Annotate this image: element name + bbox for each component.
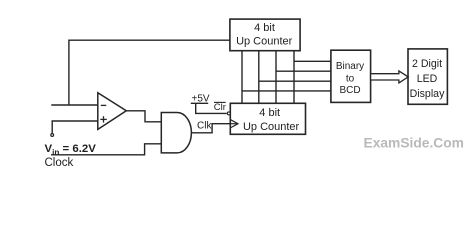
svg-text:BCD: BCD (339, 85, 360, 96)
svg-text:Up Counter: Up Counter (236, 36, 293, 48)
svg-text:ExamSide.Com: ExamSide.Com (364, 136, 464, 151)
svg-text:to: to (346, 73, 355, 84)
svg-text:Clock: Clock (45, 157, 74, 169)
svg-text:Display: Display (410, 88, 445, 100)
svg-text:LED: LED (417, 73, 438, 85)
svg-text:Clk: Clk (197, 121, 212, 132)
svg-text:Clr: Clr (214, 102, 226, 113)
svg-text:+5V: +5V (192, 94, 210, 105)
svg-text:2 Digit: 2 Digit (412, 58, 442, 70)
svg-text:4 bit: 4 bit (254, 22, 275, 34)
svg-text:Up Counter: Up Counter (243, 121, 300, 133)
svg-text:4 bit: 4 bit (259, 107, 280, 119)
svg-text:Binary: Binary (336, 61, 364, 72)
